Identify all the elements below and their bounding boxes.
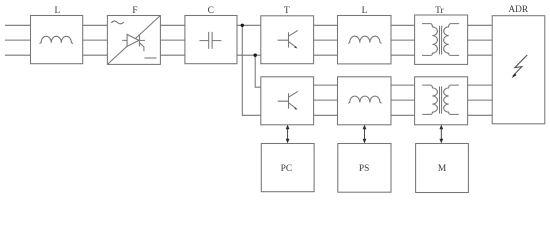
transistor symbol in lower T — [278, 91, 298, 109]
inductor L (line filter) box — [31, 16, 83, 64]
wire Tr to ADR (row2) — [468, 85, 493, 115]
label T — [284, 6, 290, 16]
AC symbol — [111, 21, 124, 24]
label PC — [281, 164, 292, 174]
inductor symbol row2 — [348, 96, 381, 103]
wire DC bus C to T (bottom) — [237, 54, 261, 56]
svg-text:L: L — [55, 6, 61, 16]
wire branch from bottom bus down to lower inverter — [255, 55, 261, 87]
svg-text:Tr: Tr — [435, 6, 444, 16]
controller PC box — [261, 144, 314, 192]
wire L to Tr (row2) — [391, 85, 415, 115]
inverter T box (lower) — [261, 77, 314, 125]
DC symbol — [145, 57, 157, 59]
inductor symbol row1 — [348, 36, 381, 43]
wire T to L (row2) — [314, 85, 338, 115]
capacitor C box — [185, 16, 237, 64]
svg-text:M: M — [438, 164, 447, 174]
double arrow L to PS — [363, 125, 367, 144]
wire F to C — [160, 25, 185, 55]
inductor L symbol — [40, 36, 73, 43]
label ADR — [508, 5, 529, 15]
junction node on top DC bus — [241, 24, 244, 27]
svg-text:PC: PC — [281, 164, 292, 174]
label F — [132, 6, 137, 16]
wire 3-phase input lines — [5, 25, 31, 55]
capacitor C symbol — [199, 32, 221, 49]
label L (row1 output) — [362, 6, 368, 16]
svg-text:PS: PS — [359, 164, 369, 174]
junction node on bottom DC bus — [254, 54, 257, 57]
svg-text:L: L — [362, 6, 368, 16]
svg-text:F: F — [132, 6, 137, 16]
svg-text:T: T — [284, 6, 290, 16]
antenna ADR box — [492, 16, 545, 124]
transformer Tr box (row1) — [415, 15, 468, 64]
label M — [438, 164, 447, 174]
transformer Tr box (row2) — [415, 77, 468, 125]
double arrow Tr to M — [439, 125, 443, 144]
transformer symbol (row2) — [422, 85, 459, 114]
label L (box 1) — [55, 6, 61, 16]
label PS — [359, 164, 369, 174]
inductor L box (row2) — [338, 77, 392, 125]
double arrow T to PC — [286, 125, 290, 144]
svg-text:ADR: ADR — [508, 5, 529, 15]
inverter T box (upper) — [261, 16, 314, 64]
wire L to F — [83, 25, 108, 55]
wire DC bus C to T (top) — [237, 24, 261, 26]
thyristor in F — [122, 34, 145, 51]
rectifier F diagonal — [107, 16, 160, 65]
wire L to Tr (row1) — [391, 25, 415, 55]
transistor symbol in upper T — [278, 30, 298, 48]
lightning arrow in ADR — [512, 55, 528, 78]
inductor L box (row1 output filter) — [338, 16, 392, 64]
wire T to L (row1) — [314, 25, 338, 55]
label Tr — [435, 6, 444, 16]
wire Tr to ADR (row1) — [468, 25, 493, 55]
transformer Tr symbol (row1) — [422, 24, 459, 56]
label C — [208, 6, 214, 16]
svg-text:C: C — [208, 6, 214, 16]
power supply PS box — [338, 144, 391, 193]
wire branch from top bus down to lower inverter — [242, 25, 260, 115]
monitor M box — [416, 144, 469, 193]
rectifier F box — [107, 16, 160, 65]
